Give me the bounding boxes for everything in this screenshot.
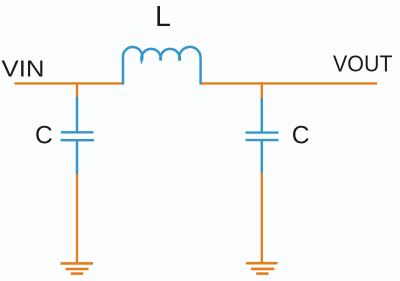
ground (right) [246,263,278,273]
wire right cap lower (blue) [261,141,264,174]
svg-text:C: C [292,122,310,149]
wire VOUT rail (right horizontal) [201,82,378,84]
svg-text:C: C [35,122,53,149]
wire left cap upper (blue) [76,97,79,132]
ground (left) [61,263,94,273]
svg-text:L: L [155,1,171,33]
wire right cap upper (blue) [261,98,264,132]
capacitor C2 plates [246,131,279,133]
svg-text:VIN: VIN [2,56,45,82]
wire right ground lead (orange) [261,173,263,263]
wire left cap lower (blue) [76,141,79,175]
capacitor C1 plates [61,131,94,133]
node junction left (orange stub from rail) [76,83,78,98]
svg-text:VOUT: VOUT [333,51,393,77]
node junction right (orange stub from rail) [261,83,263,99]
wire VIN rail (left horizontal) [15,82,124,84]
inductor L1 coil [123,47,201,85]
wire left ground lead (orange) [76,174,78,263]
